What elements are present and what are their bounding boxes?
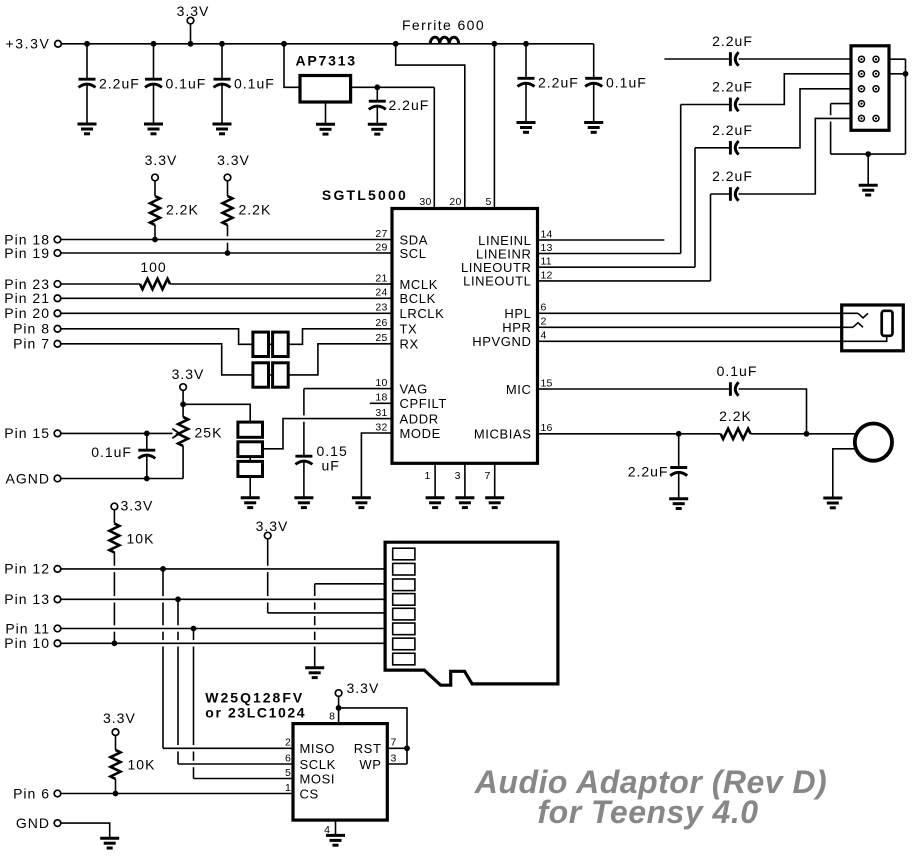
pin 18 CPFILT stub bbox=[370, 402, 392, 404]
trimpot wiper arrow bbox=[172, 429, 179, 439]
jumper JP1 pad B bbox=[273, 332, 289, 356]
wire LINEINL row bbox=[550, 239, 664, 241]
svg-text:Pin 10: Pin 10 bbox=[4, 635, 50, 651]
svg-text:3.3V: 3.3V bbox=[145, 152, 178, 168]
capacitor C11 2.2uF bbox=[730, 141, 738, 155]
SD contact pad 4 bbox=[393, 594, 415, 606]
svg-text:13: 13 bbox=[541, 242, 553, 254]
svg-text:3.3V: 3.3V bbox=[177, 3, 210, 19]
svg-text:2: 2 bbox=[285, 737, 291, 749]
wire LINEOUTR vertical to coupling cap row 3 bbox=[694, 148, 696, 267]
wire SD pin3 row bbox=[315, 583, 385, 585]
svg-text:Pin 15: Pin 15 bbox=[4, 425, 50, 441]
jumper JP1 pad A bbox=[253, 332, 269, 356]
svg-text:100: 100 bbox=[140, 259, 166, 275]
svg-text:VAG: VAG bbox=[400, 381, 428, 396]
ground C2 bbox=[144, 124, 163, 134]
wire trimpot top to ADDR jumper bbox=[183, 404, 250, 422]
capacitor C7 0.1uF bbox=[146, 433, 148, 450]
svg-text:MICBIAS: MICBIAS bbox=[474, 427, 532, 442]
svg-text:5: 5 bbox=[485, 196, 491, 208]
wire header bottom rail bbox=[831, 153, 906, 155]
pin 31 ADDR stub bbox=[380, 418, 392, 420]
svg-text:for Teensy 4.0: for Teensy 4.0 bbox=[537, 794, 758, 830]
resistor R3 100 bbox=[140, 279, 170, 289]
pin 3 bottom stub bbox=[464, 463, 466, 497]
ground SD bbox=[305, 668, 324, 678]
wire VAG row bbox=[304, 388, 380, 390]
svg-text:1: 1 bbox=[424, 470, 431, 482]
wire JP3 to ADDR bbox=[263, 419, 381, 449]
header pin r5c2 bbox=[873, 115, 879, 121]
pin 12 LINEOUTL stub bbox=[538, 280, 551, 282]
wire header row1 right bbox=[889, 58, 906, 60]
ground pin7 bbox=[485, 498, 504, 508]
junction header right bbox=[903, 71, 909, 77]
svg-text:10K: 10K bbox=[127, 531, 155, 547]
capacitor C5 2.2uF bbox=[525, 44, 527, 79]
wire VAG to 0.15uF cap vertical bbox=[303, 389, 305, 457]
wire header pin4 left vertical bbox=[830, 104, 832, 155]
wire Pin 8 to jumper JP1 bbox=[61, 329, 253, 345]
junction AP7313 output cap bbox=[374, 84, 380, 90]
ground MODE bbox=[352, 498, 371, 508]
svg-text:MODE: MODE bbox=[400, 426, 441, 441]
SD contact pad 5 bbox=[393, 608, 415, 620]
wire LINEINR row bbox=[550, 253, 681, 255]
svg-text:12: 12 bbox=[541, 269, 553, 281]
wire Pin 12 to MISO vertical bbox=[162, 569, 164, 748]
pin 6 HPL stub bbox=[538, 312, 551, 314]
svg-text:0.1uF: 0.1uF bbox=[91, 444, 132, 460]
terminal +3.3V bbox=[55, 41, 62, 48]
wire pin8 to RST WP bbox=[339, 708, 407, 764]
wire Pin 18 to SDA bbox=[61, 239, 380, 241]
junction RST bbox=[404, 745, 410, 751]
wire cap row 3 to header bbox=[739, 89, 851, 148]
svg-text:SCL: SCL bbox=[400, 246, 427, 261]
ground GND terminal bbox=[100, 838, 119, 848]
SD contact pad 1 bbox=[393, 548, 415, 560]
wire LINEINR vertical to coupling cap row 2 bbox=[680, 105, 682, 254]
wire MODE to ground bbox=[361, 433, 380, 498]
wire JP2 link bbox=[269, 374, 273, 376]
pin 16 MICBIAS stub bbox=[538, 433, 551, 435]
svg-text:7: 7 bbox=[391, 737, 397, 749]
ground C8 bbox=[294, 498, 313, 508]
svg-text:20: 20 bbox=[449, 196, 461, 208]
pin 10 VAG stub bbox=[380, 388, 392, 390]
svg-text:27: 27 bbox=[375, 228, 387, 240]
svg-text:24: 24 bbox=[375, 287, 387, 299]
pin 15 MIC stub bbox=[538, 388, 551, 390]
svg-text:0.1uF: 0.1uF bbox=[166, 76, 207, 92]
svg-text:SGTL5000: SGTL5000 bbox=[322, 187, 408, 203]
supply 3.3V R1 bbox=[152, 174, 159, 181]
svg-text:GND: GND bbox=[16, 815, 50, 831]
svg-text:3.3V: 3.3V bbox=[217, 152, 250, 168]
svg-text:Pin 11: Pin 11 bbox=[5, 620, 50, 636]
svg-text:3.3V: 3.3V bbox=[121, 497, 154, 513]
SD contact pad 6 bbox=[393, 623, 415, 635]
wire AP7313 input bbox=[284, 44, 300, 88]
pin 11 LINEOUTR stub bbox=[538, 266, 551, 268]
svg-text:2.2uF: 2.2uF bbox=[628, 464, 669, 480]
svg-text:8: 8 bbox=[329, 711, 336, 723]
svg-text:2.2uF: 2.2uF bbox=[99, 76, 140, 92]
svg-text:W25Q128FV: W25Q128FV bbox=[205, 690, 304, 706]
pin 14 LINEINL stub bbox=[538, 239, 551, 241]
ground C5 bbox=[517, 123, 536, 133]
svg-text:6: 6 bbox=[541, 302, 547, 314]
junction Pin 6 pullup bbox=[113, 791, 119, 797]
svg-text:7: 7 bbox=[484, 470, 491, 482]
svg-text:MISO: MISO bbox=[300, 741, 336, 756]
junction Pin 12 MISO bbox=[160, 566, 166, 572]
wire cap row 2 to header bbox=[739, 74, 851, 105]
ground C1 bbox=[78, 124, 97, 134]
capacitor C2 0.1uF bbox=[153, 44, 155, 79]
wire AGND row bbox=[61, 478, 183, 480]
ground C14 bbox=[669, 499, 688, 509]
svg-text:25K: 25K bbox=[195, 424, 223, 440]
pin 24 BCLK stub bbox=[380, 297, 392, 299]
svg-text:3: 3 bbox=[455, 470, 462, 482]
svg-text:HPL: HPL bbox=[504, 306, 531, 321]
ground C3 bbox=[213, 124, 232, 134]
svg-text:6: 6 bbox=[285, 752, 291, 764]
supply 3.3V R7 bbox=[112, 729, 119, 736]
wire Pin 23 to resistor bbox=[61, 283, 140, 285]
junction SCL pullup bbox=[225, 250, 231, 256]
pin 32 MODE stub bbox=[380, 432, 392, 434]
junction header ground bbox=[865, 151, 871, 157]
wire HPVGND bbox=[550, 336, 887, 342]
junction Pin 10 pullup bbox=[112, 640, 118, 646]
wire cap row 4 bbox=[711, 193, 731, 195]
ground C4 bbox=[368, 124, 387, 134]
svg-text:SCLK: SCLK bbox=[300, 757, 336, 772]
connector J3 micro SD card bbox=[385, 542, 558, 685]
svg-text:2.2K: 2.2K bbox=[166, 202, 199, 218]
wire MIC cap to junction bbox=[739, 389, 807, 434]
svg-text:Pin 21: Pin 21 bbox=[4, 290, 50, 306]
ferrite bead L1 bbox=[430, 37, 459, 44]
resistor R6 2.2K bbox=[721, 429, 751, 439]
junction pin8 bbox=[336, 705, 342, 711]
header pin r1c2 bbox=[873, 56, 879, 62]
junction SDA pullup bbox=[152, 237, 158, 243]
capacitor C10 2.2uF bbox=[730, 98, 738, 112]
wire cap row 3 bbox=[695, 147, 730, 149]
pin 7 RST stub bbox=[387, 747, 407, 749]
header pin r2c2 bbox=[873, 71, 879, 77]
wire resistor to mic bbox=[751, 433, 855, 435]
ground C6 bbox=[584, 123, 603, 133]
svg-text:RST: RST bbox=[354, 741, 382, 756]
SD contact pad 8 bbox=[393, 653, 415, 665]
wire Pin 19 to SCL bbox=[61, 252, 380, 254]
svg-text:14: 14 bbox=[541, 228, 553, 240]
jumper JP3 pad 1 bbox=[238, 422, 263, 437]
ground U3 pin4 bbox=[326, 835, 345, 845]
microphone MK1 bbox=[855, 424, 892, 461]
svg-text:0.1uF: 0.1uF bbox=[717, 363, 758, 379]
svg-text:31: 31 bbox=[375, 407, 387, 419]
svg-text:3.3V: 3.3V bbox=[103, 710, 136, 726]
svg-text:3.3V: 3.3V bbox=[347, 680, 380, 696]
svg-text:RX: RX bbox=[400, 337, 419, 352]
svg-text:TX: TX bbox=[400, 322, 418, 337]
header pin r4c1 bbox=[859, 101, 865, 107]
svg-text:18: 18 bbox=[375, 392, 387, 404]
wire JP3 link bbox=[249, 457, 251, 462]
wire resistor to MCLK bbox=[170, 283, 380, 285]
junction MICBIAS cap bbox=[676, 431, 682, 437]
svg-text:2.2uF: 2.2uF bbox=[538, 75, 579, 91]
svg-text:AP7313: AP7313 bbox=[296, 53, 357, 69]
wire cap row 2 bbox=[681, 104, 731, 106]
svg-text:23: 23 bbox=[375, 302, 387, 314]
capacitor C9 2.2uF bbox=[730, 52, 738, 66]
wire Pin 20 to LRCLK bbox=[61, 312, 380, 314]
wire Pin 13 row bbox=[61, 598, 385, 600]
svg-text:HPVGND: HPVGND bbox=[472, 334, 531, 349]
svg-text:Pin 6: Pin 6 bbox=[13, 785, 50, 801]
svg-text:0.1uF: 0.1uF bbox=[606, 75, 647, 91]
wire LINEOUTL vertical to coupling cap row 4 bbox=[710, 194, 712, 281]
svg-text:Pin 13: Pin 13 bbox=[4, 591, 50, 607]
junction Pin 13 SCLK bbox=[175, 596, 181, 602]
supply 3.3V SD bbox=[264, 532, 271, 539]
pin 6 SCLK stub bbox=[178, 763, 293, 765]
jumper JP3 pad 2 bbox=[238, 442, 263, 457]
supply 3.3V R2 bbox=[224, 174, 231, 181]
capacitor C12 2.2uF bbox=[730, 187, 738, 201]
wire GND bbox=[61, 823, 110, 838]
capacitor C1 2.2uF bbox=[86, 44, 88, 79]
ground pin3 bbox=[455, 498, 474, 508]
junction AGND cap bbox=[144, 476, 150, 482]
wire JP2 to RX bbox=[288, 344, 380, 375]
svg-text:LRCLK: LRCLK bbox=[400, 306, 445, 321]
wire 10K R5 vertical to Pin 10 row bbox=[113, 552, 115, 643]
header pin r1c1 bbox=[859, 56, 865, 62]
supply 3.3V top rail bbox=[187, 17, 194, 24]
pin 26 TX stub bbox=[380, 328, 392, 330]
regulator U2 AP7313 bbox=[300, 76, 351, 103]
pin 23 LRCLK stub bbox=[380, 312, 392, 314]
svg-text:CPFILT: CPFILT bbox=[400, 396, 447, 411]
wire crossing gaps bbox=[226, 236, 230, 242]
jumper JP3 pad 3 bbox=[238, 461, 263, 476]
svg-text:2.2uF: 2.2uF bbox=[712, 79, 753, 95]
jack contact HPL bbox=[858, 313, 868, 318]
svg-text:21: 21 bbox=[375, 272, 387, 284]
junction Pin 15 cap bbox=[144, 431, 150, 437]
trimpot R4 25K bbox=[178, 417, 188, 446]
svg-text:2.2uF: 2.2uF bbox=[712, 168, 753, 184]
pin 1 bottom stub bbox=[434, 463, 436, 497]
SD contact pad 2 bbox=[393, 563, 415, 575]
svg-text:2.2uF: 2.2uF bbox=[712, 122, 753, 138]
svg-text:3.3V: 3.3V bbox=[172, 366, 205, 382]
connector J1 header bbox=[851, 46, 889, 131]
pin 2 HPR stub bbox=[538, 326, 551, 328]
SD contact pad 3 bbox=[393, 579, 415, 591]
capacitor C13 0.1uF bbox=[730, 382, 738, 396]
capacitor C8 0.15uF bbox=[295, 456, 312, 464]
pin 4 bottom stub bbox=[335, 820, 337, 835]
junction rail pin20 branch bbox=[393, 41, 399, 47]
svg-text:MCLK: MCLK bbox=[400, 277, 439, 292]
jack contact HPR bbox=[853, 323, 863, 328]
wire Pin 10 row bbox=[61, 642, 385, 644]
svg-text:32: 32 bbox=[375, 421, 387, 433]
capacitor C4 2.2uF bbox=[376, 87, 378, 101]
wire Pin 21 to BCLK bbox=[61, 297, 380, 299]
pin 21 MCLK stub bbox=[380, 283, 392, 285]
IC U1 SGTL5000 bbox=[392, 209, 538, 464]
resistor R5 10K bbox=[113, 510, 115, 524]
wire LINEOUTL row bbox=[550, 280, 711, 282]
wire JP3 to ground bbox=[249, 477, 251, 498]
wire mic ground bbox=[833, 449, 855, 498]
wire Pin 6 to CS bbox=[61, 793, 293, 795]
svg-text:uF: uF bbox=[322, 458, 340, 474]
supply 3.3V trimpot bbox=[180, 384, 187, 391]
pin 13 LINEINR stub bbox=[538, 253, 551, 255]
wire cap row 1 bbox=[664, 58, 730, 60]
resistor R7 10K bbox=[115, 736, 117, 750]
svg-text:4: 4 bbox=[541, 330, 547, 342]
pin 4 HPVGND stub bbox=[538, 340, 551, 342]
wire +3.3V power rail bbox=[61, 43, 593, 45]
svg-text:5: 5 bbox=[285, 767, 291, 779]
supply 3.3V U3 bbox=[335, 690, 342, 697]
wire MIC row bbox=[550, 388, 730, 390]
pin 5 MOSI stub bbox=[194, 778, 294, 780]
svg-text:WP: WP bbox=[359, 757, 381, 772]
pin 25 RX stub bbox=[380, 343, 392, 345]
svg-text:15: 15 bbox=[541, 377, 553, 389]
wire header row2 right bbox=[889, 73, 906, 75]
connector J2 headphone jack bbox=[842, 305, 904, 351]
svg-text:25: 25 bbox=[375, 332, 387, 344]
jumper JP2 pad A bbox=[253, 363, 269, 387]
svg-text:Pin 20: Pin 20 bbox=[4, 305, 50, 321]
capacitor C3 0.1uF bbox=[221, 44, 223, 79]
junction rail C5 bbox=[523, 41, 529, 47]
junction MIC branch bbox=[804, 431, 810, 437]
svg-text:2.2K: 2.2K bbox=[719, 408, 752, 424]
supply 3.3V R5 bbox=[111, 503, 118, 510]
ground mic bbox=[823, 498, 842, 508]
wire LINEOUTR row bbox=[550, 266, 695, 268]
svg-text:2.2uF: 2.2uF bbox=[712, 33, 753, 49]
svg-text:2.2uF: 2.2uF bbox=[389, 97, 430, 113]
svg-text:2.2K: 2.2K bbox=[239, 202, 272, 218]
header pin r3c2 bbox=[873, 86, 879, 92]
wire header right vertical bbox=[905, 59, 907, 154]
SD contact pad 7 bbox=[393, 638, 415, 650]
wire 3.3V to SD VDD vertical bbox=[267, 539, 269, 613]
svg-text:Pin 19: Pin 19 bbox=[4, 245, 50, 261]
junction rail AP7313 input bbox=[281, 41, 287, 47]
wire cap row 4 to header bbox=[739, 118, 851, 194]
svg-text:0.1uF: 0.1uF bbox=[234, 76, 275, 92]
svg-text:BCLK: BCLK bbox=[400, 291, 436, 306]
wire trimpot bottom to AGND row bbox=[182, 446, 184, 479]
jack plug barrel bbox=[882, 311, 893, 336]
jumper JP2 pad B bbox=[273, 363, 289, 387]
svg-text:MIC: MIC bbox=[506, 382, 532, 397]
svg-text:Pin 8: Pin 8 bbox=[13, 321, 50, 337]
svg-text:11: 11 bbox=[541, 256, 552, 268]
svg-text:Ferrite 600: Ferrite 600 bbox=[402, 17, 485, 33]
IC U3 W25Q128FV bbox=[293, 724, 387, 821]
wire Pin 11 row bbox=[61, 628, 385, 630]
svg-text:AGND: AGND bbox=[6, 470, 50, 486]
header pin r2c1 bbox=[859, 71, 865, 77]
pin 7 bottom stub bbox=[494, 463, 496, 497]
svg-text:LINEOUTL: LINEOUTL bbox=[463, 274, 531, 289]
junction trimpot top bbox=[180, 401, 186, 407]
junction rail C3 bbox=[219, 41, 225, 47]
pin 2 MISO stub bbox=[163, 747, 293, 749]
svg-text:3: 3 bbox=[391, 752, 397, 764]
svg-text:29: 29 bbox=[375, 241, 387, 253]
header pin r5c1 bbox=[859, 115, 865, 121]
svg-text:ADDR: ADDR bbox=[400, 411, 439, 426]
svg-text:3.3V: 3.3V bbox=[256, 518, 289, 534]
pin 3 WP stub bbox=[387, 763, 407, 765]
wire SD pin3 to ground vertical bbox=[314, 584, 316, 668]
junction rail C1 bbox=[84, 41, 90, 47]
wire cap row 1 to header bbox=[739, 58, 851, 60]
wire Pin 13 to SCLK vertical bbox=[177, 599, 179, 764]
wire header ground stub bbox=[867, 154, 869, 185]
wire HPL bbox=[550, 312, 858, 314]
wire Pin 11 to MOSI vertical bbox=[193, 629, 195, 779]
svg-text:CS: CS bbox=[300, 786, 319, 801]
svg-text:HPR: HPR bbox=[502, 320, 531, 335]
wire pin30 vertical bbox=[433, 87, 435, 208]
wire Pin 12 row bbox=[61, 568, 385, 570]
resistor R1 2.2K bbox=[154, 181, 156, 196]
wire header pin4 stub bbox=[831, 103, 851, 105]
wire AP7313 output to pin30 bbox=[351, 86, 435, 88]
wire 2.2K R2 pulldown vertical to SCL bbox=[227, 225, 229, 253]
junction rail C2 bbox=[151, 41, 157, 47]
wire 3.3V to pin8 bbox=[338, 696, 340, 723]
wire MICBIAS row bbox=[550, 433, 721, 435]
junction Pin 11 MOSI bbox=[191, 626, 197, 632]
wire 3.3V to trimpot bbox=[182, 390, 184, 417]
junction rail 3.3V bbox=[188, 41, 194, 47]
wire pin5 branch bbox=[493, 44, 495, 209]
ground AP7313 bbox=[316, 124, 335, 134]
svg-text:16: 16 bbox=[541, 422, 553, 434]
svg-text:26: 26 bbox=[375, 317, 387, 329]
svg-text:10: 10 bbox=[375, 377, 387, 389]
svg-text:or 23LC1024: or 23LC1024 bbox=[205, 705, 306, 721]
wire Pin 7 to jumper JP2 bbox=[61, 344, 253, 375]
svg-text:Pin 7: Pin 7 bbox=[13, 336, 50, 352]
svg-text:30: 30 bbox=[419, 196, 431, 208]
wire Pin 15 to wiper bbox=[61, 432, 173, 434]
wire JP1 link bbox=[269, 343, 273, 345]
